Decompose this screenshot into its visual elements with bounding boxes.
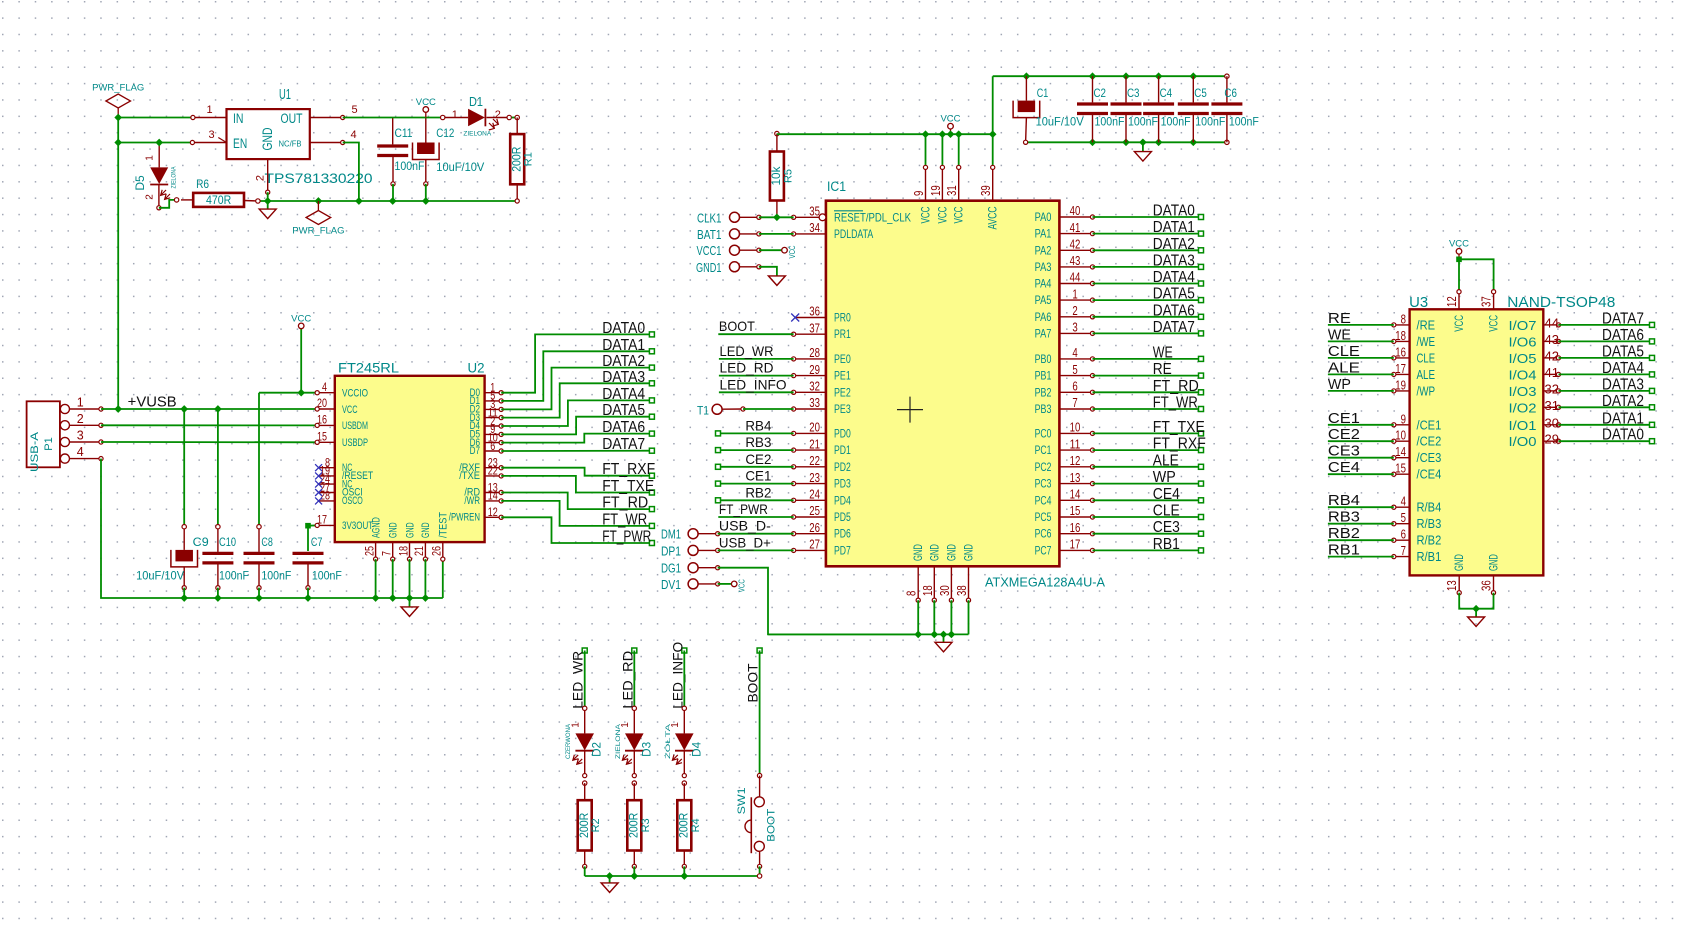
svg-text:27: 27	[809, 538, 820, 552]
junction C2 top	[1089, 72, 1097, 80]
junction VCCIO VCC stem	[297, 389, 305, 397]
svg-text:31: 31	[945, 185, 959, 196]
svg-text:32: 32	[809, 380, 820, 394]
wire CE2 to U3	[1328, 440, 1394, 442]
svg-text:DATA6: DATA6	[1153, 302, 1195, 319]
wire NC/FB to ground rail	[343, 143, 359, 202]
svg-text:BOOT: BOOT	[745, 663, 761, 702]
resistor R2 body	[578, 800, 592, 850]
svg-text:35: 35	[809, 205, 820, 219]
svg-text:PD1: PD1	[834, 443, 851, 457]
svg-text:6: 6	[1072, 380, 1077, 394]
junction C10 ground	[214, 594, 222, 602]
svg-text:GND: GND	[1487, 554, 1501, 571]
resistor R1 body	[510, 134, 524, 184]
svg-text:PD4: PD4	[834, 493, 851, 507]
svg-text:RE: RE	[1153, 361, 1172, 378]
junction PWR_FLAG 2 at rail	[315, 197, 323, 205]
svg-text:17: 17	[1395, 362, 1406, 376]
svg-text:FT_PWR: FT_PWR	[719, 501, 768, 517]
wire cap bank GND stem	[1142, 142, 1144, 151]
svg-text:DP1: DP1	[661, 544, 681, 558]
IC1 pin 41 PA1	[1059, 233, 1092, 235]
IC1 center cursor cross	[897, 397, 923, 423]
wire +VUSB to U1 IN	[118, 117, 193, 119]
svg-text:CLK1: CLK1	[697, 210, 722, 225]
IC1 pin 4 PB0	[1059, 358, 1092, 360]
node RB2 end	[716, 498, 721, 503]
wire CE1 to IC1	[718, 483, 794, 485]
node DATA5 end at U3	[1650, 355, 1655, 360]
svg-text:CE3: CE3	[1153, 519, 1180, 536]
wire USB_D+ to IC1	[718, 549, 794, 551]
wire R4 to ground rail	[683, 866, 685, 876]
wire U2 GND to ground rail	[409, 559, 411, 598]
LED D2 pin 1	[584, 711, 586, 734]
LED D3 pin 2	[633, 751, 635, 776]
svg-text:USBDM: USBDM	[342, 420, 368, 432]
svg-text:PC4: PC4	[1035, 493, 1052, 507]
wire IC1 PC6 to CE3	[1093, 533, 1202, 535]
U3 bottom pin 13 GND	[1458, 575, 1460, 592]
svg-text:NC/FB: NC/FB	[279, 139, 302, 149]
svg-text:PC0: PC0	[1035, 426, 1052, 440]
svg-text:RB1: RB1	[1328, 542, 1360, 559]
svg-text:CE4: CE4	[1328, 459, 1360, 476]
node DATA1 end at U3	[1650, 422, 1655, 427]
U1 pin 4 NC/FB	[310, 142, 343, 144]
D5 pin 2 wire	[158, 185, 160, 208]
svg-text:LED_RD: LED_RD	[619, 651, 635, 709]
svg-text:1: 1	[206, 104, 212, 116]
svg-text:8: 8	[1401, 312, 1406, 326]
junction GND18	[930, 631, 938, 639]
svg-text:14: 14	[488, 489, 498, 503]
wire IC1 PB0 to WE	[1093, 358, 1202, 360]
LED D4 pin 1	[683, 711, 685, 734]
svg-text:FT_RXF: FT_RXF	[602, 461, 655, 478]
svg-text:DATA7: DATA7	[602, 436, 645, 453]
VCC stub at VCC1	[782, 247, 788, 253]
U3 pin 9 /CE1	[1394, 424, 1410, 426]
IC1 pin 1 PA5	[1059, 299, 1092, 301]
svg-text:VCC: VCC	[737, 579, 747, 592]
svg-text:30: 30	[938, 585, 952, 596]
svg-text:PE2: PE2	[834, 385, 851, 399]
svg-text:12: 12	[488, 505, 498, 519]
node FT_WR end	[1199, 407, 1204, 412]
node DATA7 end	[649, 448, 654, 453]
svg-text:2: 2	[495, 109, 501, 121]
svg-text:PR1: PR1	[834, 327, 851, 341]
U1 pin 3 EN	[192, 142, 226, 144]
ground symbol below U1	[259, 209, 276, 219]
regulator U1 body	[227, 109, 310, 159]
svg-text:40: 40	[1070, 204, 1081, 218]
wire 3V3OUT	[308, 524, 317, 526]
svg-text:ALE: ALE	[1417, 367, 1436, 382]
svg-text:DATA6: DATA6	[602, 419, 645, 436]
wire GND stem FT245	[409, 598, 411, 607]
VCC power symbol	[1458, 254, 1460, 259]
svg-text:BOOT: BOOT	[719, 318, 755, 334]
svg-text:20: 20	[809, 421, 820, 435]
svg-text:LED_WR: LED_WR	[720, 343, 774, 359]
svg-text:10k: 10k	[769, 166, 783, 186]
IC1 pin 6 PB2	[1059, 391, 1092, 393]
node DATA5 end	[649, 414, 654, 419]
svg-text:FT_WR: FT_WR	[1153, 395, 1198, 412]
svg-text:ATXMEGA128A4U-A: ATXMEGA128A4U-A	[985, 575, 1105, 590]
svg-text:30: 30	[1545, 415, 1559, 430]
capacitor C6	[1225, 74, 1229, 78]
svg-text:10uF/10V: 10uF/10V	[136, 569, 184, 583]
IC1 pin 22 PD2	[794, 466, 826, 468]
node FT_TXE end	[1199, 431, 1204, 436]
junction GND symbol stem	[406, 594, 414, 602]
svg-text:44: 44	[1545, 315, 1559, 330]
svg-text:DATA0: DATA0	[1153, 203, 1195, 220]
PWR_FLAG flag 1	[117, 108, 119, 118]
svg-text:PC1: PC1	[1035, 443, 1052, 457]
svg-text:/CE2: /CE2	[1417, 434, 1442, 449]
svg-text:WE: WE	[1153, 344, 1173, 361]
svg-text:1: 1	[145, 155, 156, 161]
PWR_FLAG flag 2	[317, 201, 319, 211]
U2 pin 12 /PWREN	[485, 516, 502, 518]
svg-text:PWR_FLAG: PWR_FLAG	[92, 83, 144, 94]
svg-text:CE1: CE1	[1328, 410, 1360, 427]
svg-text:8: 8	[905, 591, 919, 596]
wire IC1 GND 38 to rail	[968, 600, 970, 634]
svg-text:VCC: VCC	[342, 404, 358, 416]
svg-text:RB1: RB1	[1153, 536, 1180, 553]
node DATA0 end	[649, 332, 654, 337]
svg-text:/WR: /WR	[464, 495, 480, 507]
svg-text:R2: R2	[590, 818, 602, 832]
svg-text:OUT: OUT	[281, 111, 303, 126]
svg-text:21: 21	[412, 546, 426, 556]
svg-text:ŻÓŁTA: ŻÓŁTA	[663, 723, 672, 759]
svg-text:4: 4	[322, 380, 327, 394]
wire P1 pin2 to USBDM	[101, 424, 317, 426]
U2 pin 3 D2	[485, 408, 502, 410]
svg-text:PC5: PC5	[1035, 510, 1052, 524]
wire P1 pin4 to ground	[101, 459, 184, 598]
U3 pin 17 ALE	[1394, 373, 1410, 375]
wire IC1 PA7 to DATA7	[1093, 332, 1202, 334]
node RE end	[1199, 373, 1204, 378]
svg-text:D3: D3	[639, 742, 653, 757]
junction C4 bottom	[1155, 138, 1163, 146]
svg-text:28: 28	[809, 346, 820, 360]
junction GND pin7	[389, 594, 397, 602]
wire +VUSB to U1 EN	[118, 142, 192, 144]
junction C5 top	[1189, 72, 1197, 80]
junction C3 bottom	[1122, 138, 1130, 146]
svg-text:CE2: CE2	[745, 451, 771, 467]
svg-text:+VUSB: +VUSB	[128, 394, 177, 410]
svg-text:PA4: PA4	[1035, 277, 1052, 291]
resistor R1	[515, 115, 519, 119]
wire C7 to ground rail	[307, 588, 309, 598]
node FT_TXE end	[649, 490, 654, 495]
svg-text:PD2: PD2	[834, 460, 851, 474]
svg-text:39: 39	[979, 185, 993, 196]
wire U3 I/O2 to DATA2	[1559, 406, 1653, 408]
R3 bottom pin	[633, 851, 635, 867]
wire IC1 PC2 to ALE	[1093, 466, 1202, 468]
svg-text:43: 43	[1070, 254, 1081, 268]
svg-text:19: 19	[929, 185, 943, 196]
wire R2 to ground rail	[584, 866, 586, 876]
svg-text:DATA1: DATA1	[1602, 410, 1644, 427]
svg-text:VCC: VCC	[935, 206, 949, 223]
svg-text:/RE: /RE	[1417, 317, 1436, 332]
node FT_WR end	[649, 523, 654, 528]
U2 pin 1 D0	[485, 392, 502, 394]
IC1 pin 42 PA2	[1059, 249, 1092, 251]
junction C5 bottom	[1189, 138, 1197, 146]
svg-text:100nF: 100nF	[261, 569, 291, 583]
svg-text:7: 7	[380, 551, 394, 556]
svg-text:25: 25	[362, 546, 376, 556]
node DATA6 end	[1199, 314, 1204, 319]
svg-text:U2: U2	[468, 361, 485, 376]
R6 pin wires	[181, 199, 193, 201]
svg-text:16: 16	[1395, 345, 1406, 359]
junction U3 ground	[1472, 605, 1480, 613]
U3 pin 29 I/O0	[1543, 440, 1558, 442]
U2 pin 5 D1	[485, 400, 502, 402]
U1 pin 2 GND	[267, 159, 269, 192]
svg-text:34: 34	[809, 221, 820, 235]
U2 pin 16 USBDM	[317, 424, 335, 426]
node DATA5 end	[1199, 298, 1204, 303]
U2 pin 10 D6	[485, 442, 502, 444]
svg-text:2: 2	[77, 412, 84, 426]
wire U2 D7 to DATA7	[501, 450, 652, 452]
svg-text:FT_RD: FT_RD	[1153, 378, 1199, 395]
svg-text:C7: C7	[311, 535, 323, 549]
VCC power symbol at U1 output	[425, 112, 427, 117]
wire U2 D5 to DATA5	[501, 417, 652, 435]
svg-text:DATA5: DATA5	[1602, 343, 1644, 360]
svg-text:25: 25	[809, 504, 820, 518]
node FT_RD end	[1199, 390, 1204, 395]
svg-text:D7: D7	[470, 445, 480, 457]
IC1 pin 21 PD1	[794, 449, 826, 451]
svg-text:VCC1: VCC1	[697, 243, 722, 258]
svg-text:4: 4	[1072, 346, 1077, 360]
U3 pin 19 /WP	[1394, 390, 1410, 392]
FT245RL ground rail	[184, 597, 443, 599]
wire LED_INFO to IC1	[719, 391, 794, 393]
svg-text:200R: 200R	[577, 812, 591, 837]
svg-text:100nF: 100nF	[1095, 115, 1125, 129]
wire LED_WR to IC1	[719, 358, 794, 360]
junction VCC pin9	[922, 130, 930, 138]
U3 pin 30 I/O1	[1543, 424, 1558, 426]
svg-text:12: 12	[1070, 454, 1081, 468]
LED D3	[625, 733, 644, 750]
svg-text:100nF: 100nF	[395, 159, 425, 173]
svg-text:R/B3: R/B3	[1417, 516, 1442, 531]
U2 pin 23 /RXF	[485, 467, 502, 469]
svg-text:PWR_FLAG: PWR_FLAG	[292, 226, 344, 237]
U3 pin 15 /CE4	[1394, 473, 1410, 475]
node RB1 end	[1199, 548, 1204, 553]
wire VCC drop x=942.4	[941, 134, 943, 167]
capacitor C11	[392, 118, 394, 145]
U2 pin 13 /RD	[485, 492, 502, 494]
svg-text:44: 44	[1070, 271, 1081, 285]
svg-text:21: 21	[809, 437, 820, 451]
svg-text:GND: GND	[388, 522, 400, 538]
node CE2 end	[716, 464, 721, 469]
IC1 pin 35 RESET/PDL_CLK	[794, 216, 820, 218]
svg-text:C12: C12	[436, 126, 454, 140]
svg-text:11: 11	[1070, 437, 1081, 451]
IC1 pin 43 PA3	[1059, 266, 1092, 268]
svg-text:C8: C8	[261, 535, 273, 549]
svg-text:PC2: PC2	[1035, 460, 1052, 474]
node WP end	[1199, 481, 1204, 486]
svg-text:EN: EN	[233, 136, 247, 151]
node BOOT top	[757, 648, 762, 653]
U3 pin 42 I/O5	[1543, 357, 1558, 359]
U2 pin 21 GND bottom	[424, 542, 426, 559]
svg-text:RB4: RB4	[745, 417, 771, 433]
svg-text:16: 16	[317, 413, 327, 427]
U2 pin 6 D7	[485, 450, 502, 452]
wire SW1 to ground rail	[759, 866, 761, 876]
IC1 bottom pin 38 GND	[968, 566, 970, 600]
wire T1 to PE3	[743, 408, 794, 410]
svg-text:17: 17	[1070, 538, 1081, 552]
svg-text:10: 10	[1070, 421, 1081, 435]
svg-text:OSCO: OSCO	[342, 495, 363, 507]
junction VCC stem IC1	[947, 130, 955, 138]
svg-text:13: 13	[1070, 471, 1081, 485]
svg-text:I/O3: I/O3	[1509, 384, 1537, 399]
svg-text:200R: 200R	[677, 812, 691, 837]
wire DV1 to VCC stub	[718, 583, 732, 585]
svg-text:PB1: PB1	[1035, 369, 1052, 383]
svg-text:GND: GND	[1452, 554, 1466, 571]
U2 pin 4 VCCIO	[317, 392, 335, 394]
wire WE to U3	[1328, 340, 1394, 342]
svg-text:CE3: CE3	[1328, 443, 1360, 460]
svg-text:3: 3	[77, 429, 84, 443]
wire VCC top rail to capacitor bank	[993, 75, 1227, 77]
svg-text:DATA5: DATA5	[1153, 286, 1195, 303]
wire IC1 PA3 to DATA3	[1093, 266, 1202, 268]
wire LED_RD to IC1	[719, 375, 794, 377]
svg-text:26: 26	[809, 521, 820, 535]
resistor R5 body	[770, 152, 784, 201]
svg-text:100nF: 100nF	[1128, 115, 1158, 129]
svg-text:100nF: 100nF	[1195, 115, 1225, 129]
svg-text:FT245RL: FT245RL	[338, 361, 400, 376]
U2 pin 2 D4	[485, 425, 502, 427]
wire BAT1 to IC1	[759, 233, 794, 235]
svg-text:R4: R4	[690, 818, 702, 832]
svg-text:C3: C3	[1127, 86, 1140, 100]
svg-text:PE0: PE0	[834, 352, 851, 366]
svg-text:DATA2: DATA2	[1153, 236, 1195, 253]
junction GND stem cap bank	[1139, 138, 1147, 146]
svg-text:WE: WE	[1328, 326, 1351, 343]
wire RB3 to U3	[1328, 523, 1394, 525]
svg-text:P1: P1	[43, 437, 55, 450]
svg-text:4: 4	[350, 129, 356, 141]
node DATA6 end at U3	[1650, 339, 1655, 344]
U2 pin 24 NC no-connect	[319, 483, 335, 485]
svg-text:GND: GND	[911, 544, 925, 561]
wire IC1 PA4 to DATA4	[1093, 283, 1202, 285]
wire U2 D6 to DATA6	[501, 434, 652, 443]
svg-text:41: 41	[1070, 221, 1081, 235]
svg-text:PA3: PA3	[1035, 260, 1052, 274]
wire LED_WR to D2	[584, 651, 586, 709]
svg-text:PD0: PD0	[834, 426, 851, 440]
wire LED rail GND stem	[609, 876, 611, 883]
svg-text:5: 5	[1401, 511, 1406, 525]
svg-text:PDLDATA: PDLDATA	[834, 227, 873, 241]
IC1 pin 37 PR1	[794, 333, 826, 335]
U1 pin 1 IN	[193, 117, 227, 119]
svg-text:I/O4: I/O4	[1509, 367, 1537, 382]
wire WP to U3	[1328, 390, 1394, 392]
wire U3 I/O1 to DATA1	[1559, 424, 1653, 426]
svg-text:100nF: 100nF	[1229, 115, 1259, 129]
U3 pin 5 R/B3	[1394, 523, 1410, 525]
IC1 ground rail	[768, 633, 969, 635]
VCC stub at DV1	[731, 581, 737, 587]
svg-text:DATA4: DATA4	[1602, 360, 1644, 377]
wire RB3 to IC1	[718, 449, 794, 451]
svg-text:PA1: PA1	[1035, 227, 1052, 241]
U2 pin 9 D5	[485, 433, 502, 435]
svg-text:PD3: PD3	[834, 477, 851, 491]
svg-text:D4: D4	[689, 742, 703, 757]
svg-text:6: 6	[1401, 528, 1406, 542]
svg-text:24: 24	[809, 488, 820, 502]
wire U2 FT_TXE	[501, 476, 652, 493]
junction AGND	[372, 594, 380, 602]
svg-text:I/O2: I/O2	[1509, 400, 1537, 415]
VCC power symbol above IC1	[950, 129, 952, 134]
svg-text:26: 26	[430, 546, 444, 556]
svg-text:DATA7: DATA7	[1602, 310, 1644, 327]
svg-text:41: 41	[1545, 365, 1559, 380]
svg-text:RB2: RB2	[1328, 525, 1360, 542]
IC1 ATXMEGA128A4U body	[826, 201, 1060, 567]
svg-text:DATA1: DATA1	[1153, 219, 1195, 236]
wire D1 to R1	[512, 117, 518, 119]
svg-text:ZIELONA: ZIELONA	[615, 723, 622, 759]
svg-text:FT_TXE: FT_TXE	[1153, 419, 1205, 436]
svg-text:R/B2: R/B2	[1417, 533, 1442, 548]
wire U3 I/O6 to DATA6	[1559, 340, 1653, 342]
R1 bottom pin	[516, 184, 518, 201]
wire RB2 to U3	[1328, 539, 1394, 541]
IC1 pin 23 PD3	[794, 483, 826, 485]
IC1 pin 32 PE2	[794, 391, 826, 393]
IC1 pin 25 PD5	[794, 516, 826, 518]
wire RE to U3	[1328, 324, 1394, 326]
